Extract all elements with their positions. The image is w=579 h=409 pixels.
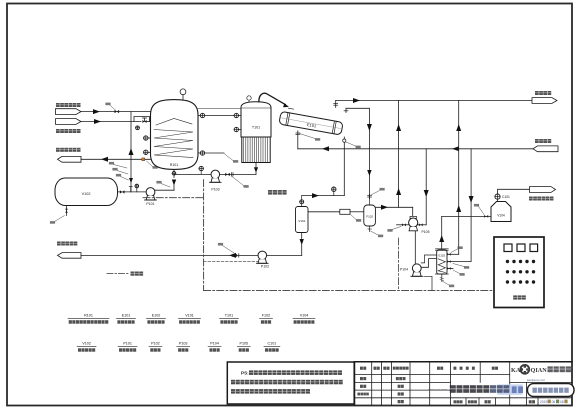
- pump P102: [258, 251, 267, 260]
- svg-text:E102: E102: [439, 253, 446, 257]
- vessel V104: [491, 202, 511, 222]
- vacuum pump P105: [410, 216, 416, 218]
- svg-text:C101: C101: [267, 342, 276, 346]
- panel label: [513, 295, 517, 299]
- small valve below station: [136, 126, 140, 130]
- piping area label: [268, 190, 272, 195]
- header: stage mark: [454, 367, 457, 370]
- svg-text:06: 06: [552, 400, 556, 404]
- svg-text:V101: V101: [298, 219, 305, 223]
- valve on feed line: [115, 110, 120, 113]
- PS proprietary note box: [227, 362, 354, 404]
- row labels mid: [396, 377, 399, 380]
- svg-text:QIAN: QIAN: [531, 367, 548, 374]
- svg-text:E101: E101: [122, 314, 131, 318]
- pump P101: [146, 188, 155, 197]
- wire R101 bottoms header to P103: [174, 173, 211, 175]
- tank V102: [55, 178, 118, 206]
- wire F102 outlet to P105: [375, 206, 412, 208]
- V101 top instrument: [301, 204, 303, 207]
- signal line to P102: [204, 260, 258, 262]
- wire P101 discharge: [155, 189, 174, 191]
- control valve: [144, 118, 146, 122]
- bottom row: sheet info: [454, 400, 457, 403]
- wire riser to feed line: [130, 112, 132, 192]
- wire riser to return trunk: [398, 101, 400, 208]
- svg-text:R101: R101: [84, 314, 93, 318]
- wire steam line: [81, 121, 141, 123]
- off-page connector: to waste water treatment: [58, 253, 82, 259]
- svg-text:2019: 2019: [540, 400, 548, 404]
- svg-text:V104: V104: [497, 213, 505, 217]
- R101 heating coil: [154, 130, 193, 158]
- svg-text:E102: E102: [152, 314, 161, 318]
- svg-text:08: 08: [560, 400, 564, 404]
- svg-text:R101: R101: [170, 163, 179, 167]
- title block header texts: [360, 367, 363, 370]
- row labels left: [360, 377, 363, 380]
- gauge near R101 bottom right: [200, 171, 202, 175]
- E101 bottom-right condensate nozzle: [343, 137, 345, 196]
- signal line legend: [107, 273, 129, 275]
- svg-text:T101: T101: [225, 314, 233, 318]
- drawing number (selected blue): [512, 386, 517, 393]
- off-page connector: from waste-water tank: [56, 109, 82, 115]
- fan C101: [497, 199, 499, 201]
- svg-text:V102: V102: [82, 342, 91, 346]
- wire E102 cooling downcomer: [470, 149, 472, 262]
- svg-text:PS:: PS:: [241, 370, 249, 375]
- wire condensate line: [81, 158, 151, 160]
- R101 internal distributor: [156, 119, 192, 126]
- svg-text:kaiqianq.com: kaiqianq.com: [527, 378, 546, 382]
- svg-text:V101: V101: [185, 314, 194, 318]
- gauge on equalising line: [333, 192, 335, 196]
- svg-text:P101: P101: [123, 342, 132, 346]
- strainer box: [340, 209, 350, 214]
- E101 top-left inlet flange: [289, 107, 294, 110]
- steam control valve station bypass: [134, 117, 150, 122]
- heat exchanger E101: [279, 111, 343, 135]
- off-page connector: steam condensate out: [58, 156, 82, 162]
- wire P105 to P104: [414, 231, 416, 264]
- wire R101 vapour line to T101: [205, 115, 234, 117]
- wire feed line to R101: [81, 111, 152, 113]
- svg-text:T101: T101: [252, 126, 260, 130]
- pump P104: [412, 264, 421, 273]
- svg-text:F102: F102: [366, 215, 373, 219]
- signal line to P105: [397, 238, 399, 290]
- svg-text:P102: P102: [151, 342, 160, 346]
- off-page connector: cooling water return: [532, 98, 557, 104]
- panel indicator lamps: [506, 260, 509, 263]
- svg-text:P105: P105: [422, 230, 430, 234]
- wire nozzle bends: [451, 253, 459, 255]
- drawing title with selection highlight: [498, 384, 523, 394]
- wire P104 drain: [424, 276, 432, 290]
- R101 bottom outlet: [173, 170, 175, 178]
- wire V101 vapour equalising line: [301, 196, 303, 200]
- column T101 shell: [241, 102, 271, 137]
- wire cooling water return trunk: [336, 100, 533, 102]
- E102 right nozzles: [447, 253, 451, 255]
- F102 vent valve: [369, 195, 371, 206]
- off-page connector: from steam network: [56, 119, 82, 125]
- svg-text:V104: V104: [300, 314, 309, 318]
- wire tank outlet to pump P101: [118, 191, 147, 193]
- svg-text:P102: P102: [261, 265, 269, 269]
- wire P103 discharge: [220, 173, 256, 175]
- svg-text:F102: F102: [262, 314, 270, 318]
- tank drain valve: [66, 206, 68, 216]
- E102 bottom drain: [441, 274, 443, 282]
- R101 right nozzles: [198, 115, 200, 117]
- pump P103: [211, 170, 220, 179]
- title block grid: [355, 361, 572, 363]
- wire E101 vent to downcomer: [346, 107, 369, 109]
- E101 bottom-left nozzle (cooling water in): [297, 131, 299, 149]
- T101 top gauge: [248, 100, 250, 101]
- svg-text:P104: P104: [400, 267, 408, 271]
- R101 left nozzles: [148, 137, 151, 139]
- panel windows: [504, 244, 512, 252]
- P105 left connection: [397, 224, 409, 226]
- wire P104 to E102: [421, 259, 437, 268]
- svg-text:P105: P105: [239, 342, 248, 346]
- vent stubs on suction line: [130, 187, 132, 192]
- vessel F102: [364, 205, 376, 226]
- control panel cabinet: [494, 237, 544, 308]
- T101 packed section: [242, 137, 270, 163]
- T101 bottom outlet: [255, 163, 257, 168]
- wire E102 riser: [458, 101, 460, 255]
- E101 top nozzle to cooling return trunk: [335, 101, 337, 108]
- wire V101 to F102 with strainer: [308, 211, 340, 213]
- svg-text:C101: C101: [502, 195, 510, 199]
- vessel R101: [151, 100, 199, 170]
- V101 bottom outlet: [301, 233, 303, 239]
- svg-text:P101: P101: [146, 202, 154, 206]
- svg-text:V102: V102: [82, 192, 91, 196]
- F102 bottom drain: [369, 226, 371, 232]
- E102 coil: [438, 259, 445, 273]
- svg-text:P104: P104: [210, 342, 219, 346]
- E101 second top nozzle: [345, 108, 347, 112]
- off-page connector: cooling water supply: [533, 146, 558, 152]
- wire downcomer to vacuum group: [425, 149, 427, 225]
- wire exhaust line: [498, 189, 530, 194]
- wire R101 dome to T101 dome: [197, 108, 241, 110]
- T101 swan-neck vapour pipe to E101: [259, 93, 285, 104]
- wire downcomer to F102: [368, 108, 370, 198]
- region boundary dash-dot: [143, 197, 204, 199]
- valve tags cluster: [114, 165, 128, 169]
- orange valve on condensate line: [142, 158, 145, 161]
- wire R101 side line: [205, 152, 224, 154]
- heat exchanger E102: [437, 250, 447, 274]
- svg-text:P103: P103: [179, 342, 188, 346]
- P105 right connection: [418, 224, 427, 226]
- wire drain line: [81, 254, 302, 256]
- T101 left nozzles: [239, 115, 242, 117]
- vessel V101: [296, 207, 309, 233]
- wire E102 top riser to V104: [441, 216, 443, 249]
- off-page connector: vacuum exhaust outlet: [530, 187, 556, 193]
- wire cooling water supply trunk: [298, 148, 533, 150]
- svg-text:P103: P103: [211, 188, 219, 192]
- tooltip bubble over drawing number: [528, 384, 575, 397]
- R101 top pressure gauge: [182, 95, 184, 100]
